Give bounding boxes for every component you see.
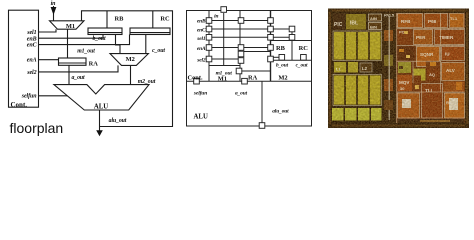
block row2 mid xyxy=(414,30,433,45)
svg-text:floorplan: floorplan xyxy=(10,120,64,136)
wire feedback to RC xyxy=(152,11,154,28)
die pad ring top xyxy=(329,10,468,127)
block IBL ram xyxy=(346,14,366,30)
svg-text:enC: enC xyxy=(27,43,38,49)
wire m1_out stub xyxy=(242,70,271,72)
svg-text:selfun: selfun xyxy=(193,90,207,96)
cell boundary Cont/M1 xyxy=(208,11,210,82)
wire sel2 row xyxy=(209,58,241,60)
block BIN xyxy=(369,23,382,30)
pin pad Cont enA xyxy=(206,45,212,51)
pin pad Cont enC xyxy=(206,26,212,32)
die grain overlay xyxy=(328,9,469,129)
svg-text:Cont.: Cont. xyxy=(11,101,28,109)
pin pad ALU selfun xyxy=(194,78,200,84)
mux M1 xyxy=(50,21,85,29)
wire sel2 xyxy=(39,65,119,72)
die micro labels xyxy=(336,13,458,106)
register RA xyxy=(59,58,87,65)
block PIC dark xyxy=(333,14,345,30)
pin pad M2 sel1 xyxy=(268,35,274,41)
wire enC xyxy=(39,35,130,45)
svg-text:a_out: a_out xyxy=(235,90,248,96)
svg-text:enA: enA xyxy=(27,58,37,64)
register RC xyxy=(130,28,170,35)
svg-text:M2: M2 xyxy=(278,74,287,81)
svg-text:enC: enC xyxy=(197,27,206,33)
svg-text:b_out: b_out xyxy=(276,63,289,69)
block AIN xyxy=(369,14,382,21)
pin pad M2 enC xyxy=(268,26,274,32)
svg-text:alu_out: alu_out xyxy=(109,118,127,124)
block TIMER xyxy=(435,30,465,45)
input arrowhead in xyxy=(51,7,57,15)
pin pad Cont enB xyxy=(206,18,212,24)
svg-text:RC: RC xyxy=(160,16,170,23)
block TLI xyxy=(422,84,443,119)
svg-text:RA: RA xyxy=(248,74,258,81)
ram group B xyxy=(333,75,382,106)
wire enB row xyxy=(209,20,271,22)
block row2 left xyxy=(398,30,412,45)
wire b_out xyxy=(116,35,121,54)
svg-text:selfun: selfun xyxy=(21,94,38,100)
svg-text:m2_out: m2_out xyxy=(138,79,156,85)
svg-text:c_out: c_out xyxy=(296,63,308,69)
block bottom left orange xyxy=(398,93,420,118)
ram group A xyxy=(333,31,382,61)
pin pad m1_out xyxy=(236,68,242,74)
svg-text:sel1: sel1 xyxy=(196,36,206,42)
op-amp ALU xyxy=(54,85,149,110)
block bottom right xyxy=(445,93,465,118)
svg-text:M1: M1 xyxy=(66,23,75,30)
svg-text:sel2: sel2 xyxy=(196,57,206,63)
wire in feed xyxy=(223,13,225,66)
wire RB input stub xyxy=(271,56,280,58)
svg-text:c_out: c_out xyxy=(152,48,165,54)
svg-text:RC: RC xyxy=(299,45,309,52)
wire in xyxy=(53,6,55,21)
pin pad M2 enB xyxy=(268,18,274,24)
pin pad RC enC xyxy=(289,26,295,32)
cell edge RA top xyxy=(240,51,271,53)
svg-text:enA: enA xyxy=(197,46,206,52)
floorplan border xyxy=(187,11,312,127)
filler block b xyxy=(444,82,465,93)
cell edge RB RC bottom xyxy=(271,59,312,61)
pin pad ALU a_out xyxy=(242,78,248,84)
die background xyxy=(328,9,469,129)
pin pad Cont sel1 xyxy=(206,35,212,41)
block row3 maroon xyxy=(398,47,415,61)
svg-text:Cont.: Cont. xyxy=(188,74,203,81)
block ALV xyxy=(442,63,465,81)
svg-text:b_out: b_out xyxy=(92,36,106,42)
wire enA xyxy=(39,59,59,61)
svg-text:M2: M2 xyxy=(126,56,135,63)
pin pad M1 enA xyxy=(238,45,244,51)
mux M2 xyxy=(110,54,148,66)
svg-text:M1: M1 xyxy=(218,75,227,82)
controller box Cont xyxy=(9,10,39,107)
svg-text:ALU: ALU xyxy=(94,104,108,111)
block mid patch xyxy=(414,69,426,81)
wire c_out xyxy=(145,35,147,54)
pin pad Cont sel2 xyxy=(206,56,212,62)
pin pad RB b xyxy=(279,55,285,61)
wire m1_out xyxy=(67,29,69,58)
svg-text:enB: enB xyxy=(27,36,37,42)
block green small xyxy=(398,62,411,73)
logic area background xyxy=(396,13,465,123)
wire alu_out xyxy=(99,110,101,132)
bottom strip xyxy=(398,119,465,123)
pin pad RC sel1 xyxy=(289,35,295,41)
svg-text:alu_out: alu_out xyxy=(272,109,289,115)
svg-text:ALU: ALU xyxy=(194,114,208,121)
cell boundary M1/RA xyxy=(239,11,241,82)
wire sel1 xyxy=(39,29,57,32)
pin pad M1 enB xyxy=(238,18,244,24)
svg-text:RB: RB xyxy=(276,45,286,52)
block P68 xyxy=(425,14,448,28)
block RFB xyxy=(398,14,423,28)
svg-text:a_out: a_out xyxy=(71,75,85,81)
pin pad M2 enA xyxy=(268,45,274,51)
register RB xyxy=(88,28,122,35)
svg-text:RA: RA xyxy=(89,60,99,67)
routing hairlines xyxy=(397,13,465,123)
die dark grain overlay xyxy=(328,9,469,129)
cell row bottom edge xyxy=(187,80,312,82)
wire selfun xyxy=(39,95,68,97)
filler block a xyxy=(426,61,440,68)
block MQV xyxy=(398,75,413,91)
cell edge ALU right xyxy=(261,81,263,126)
svg-text:enB: enB xyxy=(197,19,206,25)
ram group C bright xyxy=(332,108,382,121)
wire feedback to RB xyxy=(106,11,108,28)
pin pad RA col xyxy=(238,51,244,57)
pin pad RA sel2 xyxy=(238,58,244,64)
wire enC row xyxy=(209,28,292,30)
cell boundary RA/M2 xyxy=(270,11,272,82)
svg-text:in: in xyxy=(51,1,57,7)
cell boundary RB/RC xyxy=(291,29,293,60)
svg-text:m1_out: m1_out xyxy=(77,48,95,54)
svg-text:sel1: sel1 xyxy=(26,30,36,36)
block SQNR xyxy=(417,47,440,67)
pin pad RC c xyxy=(301,55,307,61)
wire enA row xyxy=(209,47,271,49)
output arrowhead alu_out xyxy=(96,130,103,136)
svg-text:in: in xyxy=(214,13,218,19)
channel strip xyxy=(382,13,396,123)
pin pad M2 col xyxy=(268,56,274,62)
pin pad alu_out xyxy=(259,123,265,129)
block mid patch2 xyxy=(427,69,440,81)
wire enB xyxy=(39,35,104,39)
svg-text:RB: RB xyxy=(115,16,125,23)
wire a_out xyxy=(68,65,70,84)
filler block c xyxy=(413,76,422,93)
wire sel1 row xyxy=(209,36,292,38)
pin pad in xyxy=(221,7,227,13)
block top right xyxy=(450,14,465,28)
cell edge M1 top xyxy=(209,65,240,67)
wire m2_out xyxy=(130,65,132,84)
block row3 right xyxy=(442,47,465,61)
bright speckles xyxy=(399,31,462,122)
cell edge RB RC top xyxy=(271,40,312,42)
svg-text:sel2: sel2 xyxy=(26,70,36,76)
wire feedback xyxy=(82,11,173,127)
ram row small xyxy=(334,62,372,73)
